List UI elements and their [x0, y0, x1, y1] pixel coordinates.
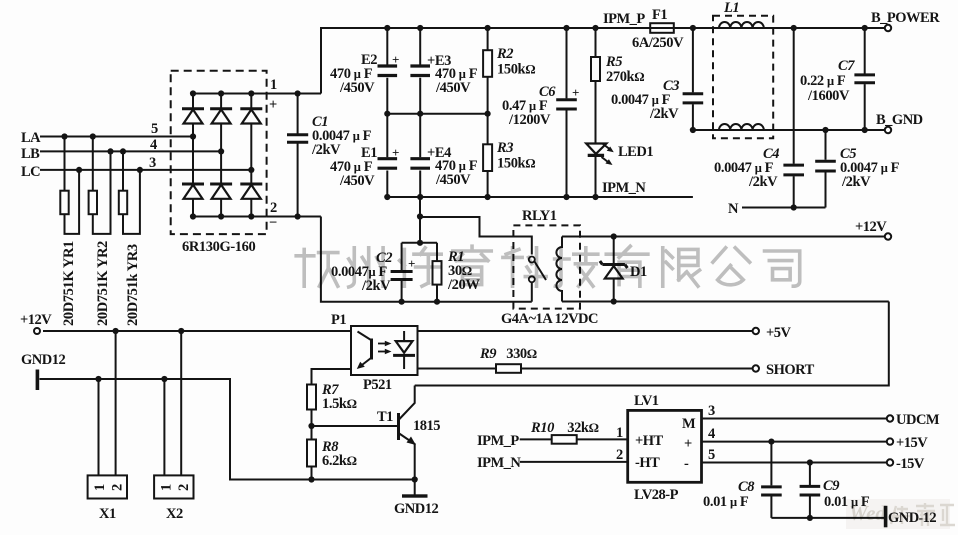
svg-text:-HT: -HT [635, 455, 660, 471]
svg-text:T1: T1 [377, 409, 393, 425]
terminal SHORT [753, 365, 759, 371]
optocoupler photodiode [393, 331, 415, 369]
wire: +12V left wire [43, 330, 351, 332]
wire IPM_P input [520, 438, 628, 440]
bridge column 2 [220, 94, 222, 217]
svg-text:3: 3 [149, 155, 156, 171]
wire: middle bus between E-caps [387, 113, 487, 115]
bridge bottom rail [193, 216, 267, 218]
svg-text:C9: C9 [823, 478, 839, 494]
svg-text:B_POWER: B_POWER [871, 10, 940, 26]
svg-text:/450V: /450V [339, 80, 375, 96]
svg-text:Wed: Wed [849, 501, 886, 525]
svg-text:+12V: +12V [20, 312, 52, 328]
watermark char 9 [713, 248, 750, 285]
svg-text:+: + [572, 85, 579, 100]
junction dots top bus [295, 90, 301, 96]
svg-text:+: + [392, 52, 399, 67]
wire: relay contact bottom pin [531, 282, 533, 302]
svg-text:M: M [682, 416, 696, 432]
junction dots bottom bus [384, 194, 390, 200]
resistor R2 [483, 28, 492, 114]
svg-text:/450V: /450V [339, 173, 375, 189]
transistor T1 (1815) [399, 386, 416, 480]
relay RLY1 dashed box [513, 225, 580, 308]
watermark bottom right (Wed + logo) [846, 499, 955, 529]
watermark char 5 [503, 248, 546, 286]
svg-text:IPM_N: IPM_N [602, 180, 646, 196]
svg-text:1: 1 [92, 484, 108, 491]
svg-text:1: 1 [159, 484, 175, 491]
wire phase LA [40, 136, 193, 138]
fuse F1 [650, 23, 674, 33]
wire phase LC [40, 169, 251, 171]
svg-text:R3: R3 [496, 140, 513, 156]
svg-text:+5V: +5V [766, 325, 792, 341]
svg-text:LC: LC [21, 164, 40, 180]
relay coil [556, 237, 562, 302]
svg-text:+: + [269, 97, 277, 113]
svg-text:R5: R5 [605, 54, 622, 70]
svg-text:2: 2 [270, 200, 277, 216]
svg-text:LED1: LED1 [618, 144, 653, 160]
varistor YR1 [60, 137, 79, 234]
svg-text:+12V: +12V [855, 219, 887, 235]
svg-text:G4A~1A 12VDC: G4A~1A 12VDC [501, 311, 598, 327]
bridge column 3 [250, 94, 252, 217]
capacitor E3 (electrolytic) [410, 28, 430, 114]
wire: C2/R1 top feed [402, 197, 437, 243]
diode D1 (zener) [600, 237, 628, 302]
svg-text:1: 1 [616, 425, 623, 441]
terminal -15V [887, 459, 893, 465]
capacitor C6 [556, 28, 577, 197]
svg-text:GND12: GND12 [394, 501, 438, 517]
wire: L1 bottom / B_GND rail [693, 129, 885, 131]
svg-text:2: 2 [176, 484, 192, 491]
junction dots middle bus [384, 111, 390, 117]
svg-text:/1600V: /1600V [807, 88, 850, 104]
junction dots output filter [768, 439, 813, 522]
wire phase LB [40, 150, 221, 152]
svg-text:C8: C8 [738, 479, 755, 495]
watermark char 8 [663, 248, 700, 286]
capacitor C4 [783, 28, 804, 208]
svg-text:X1: X1 [99, 506, 116, 522]
capacitor C2 [391, 243, 413, 302]
svg-text:−: − [269, 215, 277, 231]
svg-text:3: 3 [708, 403, 715, 419]
svg-text:F1: F1 [652, 7, 667, 23]
LED1 [586, 142, 614, 197]
wire T1 emitter to ground [414, 480, 416, 495]
junction dots rails [295, 213, 301, 219]
terminal +15V [887, 438, 893, 444]
bridge diode D-top-1 [182, 109, 204, 124]
bridge top rail [193, 93, 267, 95]
wire: top positive bus [321, 28, 885, 94]
svg-text:C7: C7 [838, 58, 855, 74]
svg-text:0.22 μ F: 0.22 μ F [800, 73, 846, 89]
wire pin 3 UDCM [702, 418, 888, 420]
resistor R3 [483, 114, 492, 197]
svg-text:2: 2 [616, 447, 623, 463]
wire: N wire [742, 207, 826, 209]
terminal +12V left [34, 328, 40, 334]
svg-text:L1: L1 [723, 0, 739, 16]
resistor R8 [307, 426, 316, 480]
varistor YR2 [89, 137, 111, 234]
svg-text:5: 5 [151, 121, 158, 137]
svg-text:0.01 μ F: 0.01 μ F [703, 494, 749, 510]
svg-text:2: 2 [110, 484, 126, 491]
svg-text:LV1: LV1 [634, 393, 659, 409]
connector X1 [88, 475, 127, 498]
ground bar GND12 left [36, 370, 40, 391]
varistor YR3 [119, 151, 140, 234]
svg-text:GND12: GND12 [21, 352, 65, 368]
wire: bridge output 1 [267, 93, 321, 95]
svg-text:R9 330Ω: R9 330Ω [479, 346, 537, 362]
svg-text:LV28-P: LV28-P [634, 487, 679, 503]
wire: relay coil bottom rail [562, 301, 889, 303]
bridge column 1 [192, 94, 194, 217]
svg-text:N: N [728, 201, 739, 217]
terminal +12V right [885, 233, 891, 239]
watermark char 2 [349, 248, 383, 287]
terminal B_GND [885, 127, 891, 133]
wire C8 C9 to GND-12 [771, 517, 885, 519]
svg-text:6.2kΩ: 6.2kΩ [322, 453, 357, 469]
optocoupler LED side [357, 332, 372, 370]
bridge diode D-top-2 [210, 109, 232, 124]
capacitor C9 [800, 463, 821, 518]
wire: jog to relay contact [420, 217, 532, 255]
bridge junction dots [190, 90, 255, 219]
capacitor C8 [761, 442, 782, 518]
watermark char 7 [606, 246, 648, 286]
bridge diode D-top-3 [240, 109, 262, 124]
svg-text:150kΩ: 150kΩ [497, 62, 535, 78]
svg-text:+: + [684, 436, 692, 452]
wire P1 bottom-left pin to R7 [312, 369, 352, 385]
svg-text:/450V: /450V [435, 172, 471, 188]
svg-text:RLY1: RLY1 [522, 208, 557, 224]
svg-text:270kΩ: 270kΩ [606, 69, 644, 85]
wire: GND12 left wire [40, 379, 415, 480]
svg-text:UDCM: UDCM [896, 412, 940, 428]
capacitor E1 (electrolytic) [378, 114, 398, 197]
inductor L1 bottom winding [719, 124, 764, 130]
capacitor C7 [854, 28, 875, 130]
IC LV1 box [628, 410, 702, 482]
svg-text:LA: LA [21, 130, 41, 146]
svg-text:+HT: +HT [635, 433, 664, 449]
ground bar GND12 at T1 [402, 494, 428, 497]
svg-text:-: - [684, 456, 689, 472]
svg-text:4: 4 [150, 137, 157, 153]
svg-text:/2kV: /2kV [649, 106, 679, 122]
svg-text:B_GND: B_GND [876, 112, 923, 128]
wire: left bottom rail to relay contact [321, 217, 532, 302]
wire: +5V line [418, 330, 753, 332]
wire R7/R8 junction to T1 base [312, 425, 398, 427]
svg-text:IPM_P: IPM_P [603, 11, 645, 27]
svg-text:+15V: +15V [896, 435, 928, 451]
svg-text:+: + [392, 145, 399, 160]
wire: X2 pin wires [164, 331, 181, 475]
inductor L1 dashed box [713, 16, 773, 139]
svg-text:/2kV: /2kV [361, 278, 391, 294]
wire: bridge output 2 rail [267, 216, 321, 218]
svg-text:5: 5 [708, 447, 715, 463]
wire pin 5 -15V [702, 462, 888, 464]
optocoupler P1 box [351, 326, 418, 375]
svg-text:/2kV: /2kV [311, 142, 341, 158]
svg-text:/2kV: /2kV [841, 174, 871, 190]
connector X2 [154, 475, 193, 498]
relay contact (switch) [529, 257, 546, 283]
svg-text:-15V: -15V [896, 456, 925, 472]
wire: big loop to T1 collector [415, 302, 889, 386]
svg-text:6R130G-160: 6R130G-160 [182, 239, 255, 255]
resistor R1 [433, 243, 442, 302]
svg-text:/450V: /450V [435, 80, 471, 96]
svg-text:P521: P521 [363, 377, 392, 393]
capacitor E4 (electrolytic) [410, 114, 430, 197]
wire: SHORT line [418, 368, 753, 370]
wire: +12V rail right [562, 236, 885, 238]
svg-text:P1: P1 [331, 312, 346, 328]
bridge diode D-bot-3 [240, 184, 262, 199]
svg-text:1.5kΩ: 1.5kΩ [322, 396, 357, 412]
svg-text:IPM_P: IPM_P [477, 433, 519, 449]
svg-text:R10 32kΩ: R10 32kΩ [530, 420, 599, 436]
inductor L1 top winding [719, 22, 764, 28]
ground bar GND-12 right [884, 506, 888, 528]
terminal +5V [753, 328, 759, 334]
svg-text:1: 1 [270, 77, 277, 93]
junction dots low-left [113, 328, 119, 334]
resistor R5 [591, 28, 600, 142]
capacitor C5 [815, 130, 836, 208]
bridge diode D-bot-2 [210, 184, 232, 199]
wire: IPM_N bottom bus [387, 196, 693, 198]
svg-text:SHORT: SHORT [766, 362, 815, 378]
wire pin 4 +15V [702, 441, 888, 443]
terminal B_POWER [885, 25, 891, 31]
watermark char 4 [453, 246, 491, 284]
wire IPM_N input [520, 461, 628, 463]
capacitor C3 [683, 28, 704, 130]
svg-text:150kΩ: 150kΩ [497, 156, 535, 172]
svg-text:/2kV: /2kV [748, 174, 778, 190]
optocoupler light arrows [378, 341, 392, 354]
resistor R10 [552, 435, 577, 444]
watermark char 3 [400, 248, 442, 286]
svg-text:/1200V: /1200V [508, 112, 551, 128]
resistor R9 [496, 364, 521, 373]
svg-text:1815: 1815 [413, 418, 440, 434]
svg-text:20D751K YR2: 20D751K YR2 [95, 241, 111, 326]
capacitor E2 (electrolytic) [378, 28, 398, 114]
bridge diode D-bot-1 [182, 184, 204, 199]
varistor junction dots [61, 133, 143, 173]
svg-text:6A/250V: 6A/250V [632, 35, 684, 51]
watermark char 10 [765, 251, 800, 286]
svg-text:R2: R2 [496, 46, 513, 62]
svg-text:X2: X2 [166, 506, 183, 522]
svg-text:LB: LB [21, 146, 40, 162]
svg-text:4: 4 [708, 426, 715, 442]
svg-text:20D751K YR1: 20D751K YR1 [61, 241, 77, 326]
svg-text:IPM_N: IPM_N [477, 455, 521, 471]
watermark char 1 [296, 249, 338, 286]
resistor R7 [307, 385, 316, 427]
junction dots B_GND / N [690, 127, 696, 133]
svg-text:20D751k YR3: 20D751k YR3 [125, 244, 141, 326]
wire: X1 pin wires [99, 331, 116, 475]
bridge rectifier U 6R130G-160 dashed box [171, 71, 267, 234]
watermark char 6 [555, 248, 598, 287]
terminal UDCM [887, 415, 893, 421]
capacitor C1 [287, 94, 308, 217]
